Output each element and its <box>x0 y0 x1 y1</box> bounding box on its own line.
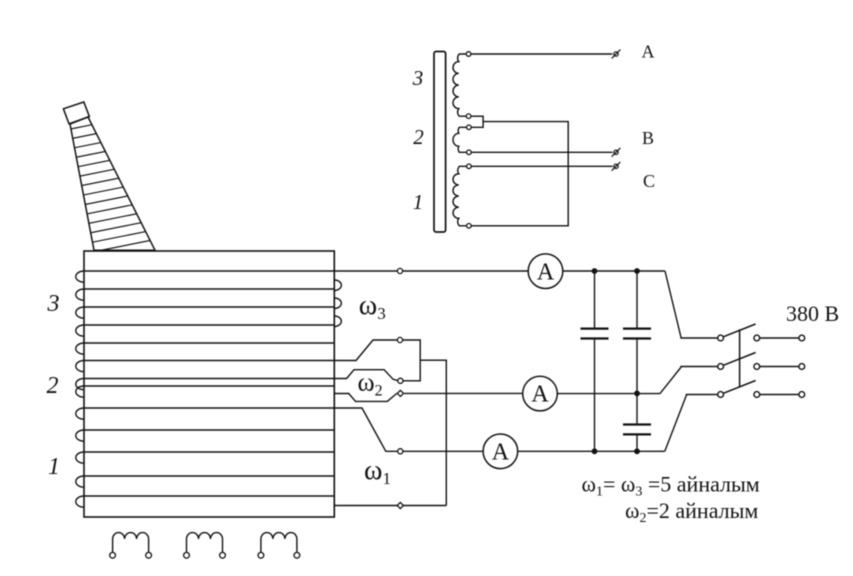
capacitor C3 <box>623 425 651 435</box>
wire to phase A <box>471 53 612 55</box>
secondary winding 2 (2 turns) <box>453 127 467 152</box>
capacitor C2 top lead <box>636 271 638 328</box>
wire winding ω3 to ammeter A1 <box>334 270 528 272</box>
terminal (winding 3 bottom) <box>466 114 471 119</box>
capacitor C3 bottom lead <box>636 436 638 452</box>
svg-text:3: 3 <box>412 66 424 90</box>
junction <box>634 391 640 397</box>
wire to phase C <box>471 165 612 167</box>
wire A3 to switch <box>518 395 718 452</box>
wire T4 to ammeter A3 <box>403 450 483 452</box>
node T4 <box>398 449 403 454</box>
junction <box>592 448 598 454</box>
svg-text:380 В: 380 В <box>786 301 839 326</box>
winding ω1 turn 12 <box>76 476 335 487</box>
junction <box>592 268 598 274</box>
bottom inductor L3 <box>258 533 300 559</box>
switch QS pole 2 <box>718 353 805 370</box>
svg-text:ω2=2 айналым: ω2=2 айналым <box>625 498 758 526</box>
wire branch to bottom return <box>420 360 446 505</box>
svg-text:1: 1 <box>48 454 60 480</box>
wire diagonal to switch pole 1 <box>665 271 718 338</box>
bottom inductor L2 <box>184 533 226 559</box>
winding ω2 lower branch <box>334 393 397 401</box>
secondary winding 1 (5 turns) <box>453 166 467 226</box>
terminal (winding 2 bottom) <box>467 150 472 155</box>
svg-text:ω1: ω1 <box>364 455 391 488</box>
svg-text:ω2: ω2 <box>358 368 383 400</box>
link winding3-winding2 <box>471 116 483 127</box>
capacitor C1 <box>581 329 609 339</box>
terminal (winding 2 top) <box>467 125 472 130</box>
winding ω2 turn 7 <box>76 379 335 390</box>
furnace core body <box>84 251 334 517</box>
ammeter A3 <box>483 434 518 469</box>
phase terminal A <box>612 50 621 59</box>
svg-text:2: 2 <box>47 373 59 399</box>
electrode E1 (hatched cone) <box>58 102 170 259</box>
winding ω3 turn 2 <box>76 280 342 300</box>
node T1 <box>397 337 402 342</box>
svg-text:ω1= ω3 =5 айналым: ω1= ω3 =5 айналым <box>582 471 760 499</box>
capacitor C2 <box>623 329 651 339</box>
wire ω2 tap up <box>334 340 397 361</box>
phase terminal B <box>612 148 621 157</box>
capacitor C1 bottom lead <box>594 340 596 452</box>
node on ω3 output <box>397 268 402 273</box>
wire ω1 tap down <box>334 408 397 451</box>
winding ω1 turn 13 <box>76 496 335 507</box>
svg-text:А: А <box>492 439 510 465</box>
winding ω3 turn 3 <box>76 298 342 318</box>
winding ω1 turn 9 <box>76 408 335 419</box>
ammeter A2 <box>523 376 558 411</box>
ammeter A1 <box>528 254 563 289</box>
svg-text:А: А <box>642 42 655 62</box>
winding ω1 turn 10 <box>76 430 335 441</box>
wire to phase B <box>471 151 612 153</box>
svg-text:1: 1 <box>413 190 424 214</box>
node T2 <box>398 378 403 383</box>
secondary core bar <box>434 52 446 233</box>
node T3 (ω2 output) <box>397 390 403 396</box>
svg-text:В: В <box>642 128 654 148</box>
winding ω1 turn 11 <box>76 452 335 463</box>
capacitor C3 top lead <box>636 393 638 423</box>
wire winding tap to box <box>471 122 568 226</box>
capacitor C1 top lead <box>594 271 596 328</box>
terminal (winding 3 top) <box>466 52 471 57</box>
terminal (winding 1 top) <box>467 164 472 169</box>
junction <box>634 268 640 274</box>
svg-text:А: А <box>531 382 549 408</box>
terminal (winding 1 bottom) <box>467 224 472 229</box>
phase terminal C <box>612 162 621 171</box>
wire bottom return <box>334 505 446 507</box>
secondary winding 3 (5 turns) <box>453 54 467 116</box>
junction <box>634 448 640 454</box>
winding ω3 turn 4 <box>76 316 342 336</box>
svg-text:2: 2 <box>413 125 424 149</box>
svg-text:ω3: ω3 <box>359 290 386 323</box>
svg-text:С: С <box>643 171 655 191</box>
switch linkage bar <box>739 329 741 386</box>
wire A1 to switch <box>563 270 665 272</box>
node on bottom return <box>397 502 403 508</box>
switch QS pole 3 <box>718 381 805 398</box>
wire T1 down to T2 <box>403 340 421 381</box>
winding ω2 turn 8 <box>76 386 335 397</box>
winding ω3 turn 1 <box>76 271 335 282</box>
wire A2 to switch <box>557 367 717 394</box>
bottom inductor L1 <box>110 533 152 559</box>
winding ω2 turn 6 <box>76 361 335 372</box>
svg-text:3: 3 <box>47 291 60 317</box>
svg-text:А: А <box>537 259 555 285</box>
capacitor C2 bottom lead <box>636 340 638 394</box>
wire T3 to ammeter A2 <box>404 392 523 394</box>
winding ω2 upper branch <box>334 370 398 381</box>
switch QS pole 1 <box>718 324 805 341</box>
winding ω3 turn 5 <box>76 343 335 354</box>
